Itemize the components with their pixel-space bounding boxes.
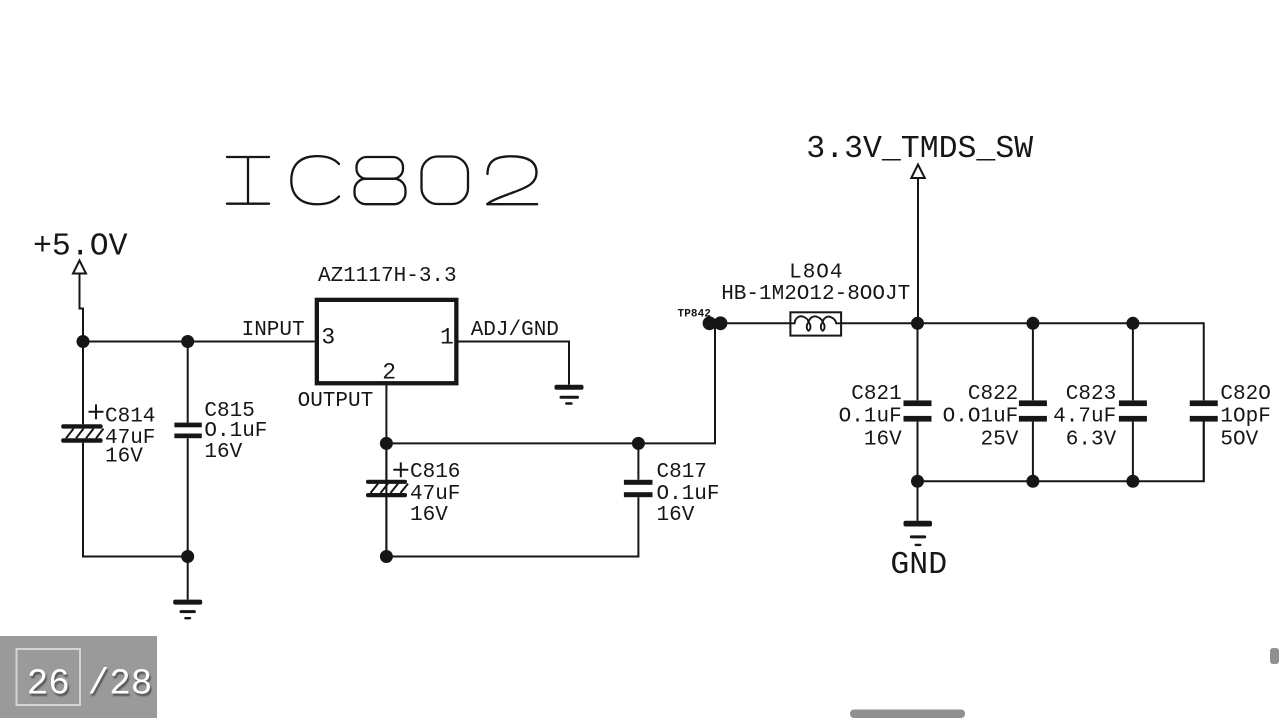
svg-text:C823: C823 [1066, 383, 1116, 406]
node C822 bottom [1026, 475, 1039, 488]
svg-text:6.3V: 6.3V [1066, 429, 1117, 452]
page indicator box [0, 636, 157, 718]
svg-text:INPUT: INPUT [242, 319, 305, 342]
power arrow +5.0V [73, 261, 86, 274]
wire C815 branch [187, 342, 189, 557]
svg-text:1: 1 [440, 324, 454, 350]
vertical scrollbar thumb [1270, 648, 1279, 664]
svg-text:GND: GND [890, 548, 947, 583]
node C817 top [632, 437, 645, 450]
wire pin2 down [385, 385, 387, 556]
svg-text:O.O1uF: O.O1uF [943, 406, 1019, 429]
IC802 title (outline plotter glyphs) [227, 156, 537, 204]
top bus wire [918, 323, 1204, 400]
inductor L804 [790, 312, 841, 335]
svg-text:25V: 25V [980, 429, 1018, 452]
node at C815 [181, 335, 194, 348]
svg-text:L8O4: L8O4 [789, 262, 843, 285]
svg-text:+5.OV: +5.OV [33, 230, 128, 265]
svg-text:16V: 16V [657, 504, 695, 527]
capacitor C817 [386, 443, 638, 556]
svg-text:3.3V_TMDS_SW: 3.3V_TMDS_SW [806, 132, 1033, 167]
power arrow 3.3V [911, 165, 925, 179]
bottom bus wire [918, 422, 1204, 482]
node pin2/bottom wire [380, 550, 393, 563]
wire +5V rail to IC input [83, 341, 315, 343]
svg-text:C817: C817 [657, 461, 707, 484]
wire inductor to 3.3V node [841, 322, 917, 324]
node C821 bottom [911, 475, 924, 488]
ground at ADJ/GND [555, 385, 584, 405]
svg-text:O.1uF: O.1uF [204, 420, 267, 443]
svg-text:5OV: 5OV [1220, 429, 1258, 452]
capacitor C822 [1032, 323, 1034, 481]
svg-text:HB-1M2O12-8OOJT: HB-1M2O12-8OOJT [721, 283, 910, 306]
svg-text:16V: 16V [105, 445, 143, 468]
node C823 top [1126, 317, 1139, 330]
wire from +5.0V arrow down [80, 274, 84, 342]
svg-text:O.1uF: O.1uF [657, 483, 720, 506]
svg-text:C821: C821 [851, 383, 901, 406]
wire 3.3V rail down [917, 178, 919, 323]
ground under C815 [173, 557, 202, 620]
capacitor C820 [1203, 422, 1205, 482]
svg-text:C82O: C82O [1220, 383, 1270, 406]
IC U802 body [317, 300, 457, 383]
svg-text:O.1uF: O.1uF [839, 406, 902, 429]
svg-text:26: 26 [27, 664, 70, 705]
svg-text:C814: C814 [105, 406, 155, 429]
svg-text:/28: /28 [88, 664, 153, 705]
svg-text:4.7uF: 4.7uF [1053, 406, 1116, 429]
node C823 bottom [1126, 475, 1139, 488]
capacitor C814 (electrolytic) [61, 404, 103, 442]
node C815/ground [181, 550, 194, 563]
svg-text:C822: C822 [968, 383, 1018, 406]
capacitor C821 [917, 323, 919, 481]
capacitor C815 [174, 423, 201, 439]
svg-text:2: 2 [382, 359, 396, 385]
node at C814 [77, 335, 90, 348]
mid wire to TP [386, 323, 715, 443]
capacitor C823 [1132, 323, 1134, 481]
node C821 top [911, 317, 924, 330]
node pin2/mid wire [380, 437, 393, 450]
svg-text:3: 3 [321, 324, 335, 350]
svg-text:16V: 16V [864, 429, 902, 452]
capacitor C816 (electrolytic) [385, 443, 387, 556]
node C822 top [1026, 317, 1039, 330]
svg-text:AZ1117H-3.3: AZ1117H-3.3 [318, 265, 457, 288]
svg-text:ADJ/GND: ADJ/GND [471, 319, 559, 342]
svg-text:1OpF: 1OpF [1220, 406, 1270, 429]
wire pin1 to ground [459, 342, 570, 385]
svg-text:16V: 16V [204, 441, 242, 464]
wire C814 branch [83, 342, 188, 557]
horizontal scrollbar thumb [850, 710, 965, 719]
svg-text:16V: 16V [410, 504, 448, 527]
ground GND [917, 481, 919, 521]
svg-text:C816: C816 [410, 461, 460, 484]
wire TP to inductor [722, 322, 791, 324]
svg-text:47uF: 47uF [410, 483, 460, 506]
svg-text:OUTPUT: OUTPUT [298, 390, 374, 413]
